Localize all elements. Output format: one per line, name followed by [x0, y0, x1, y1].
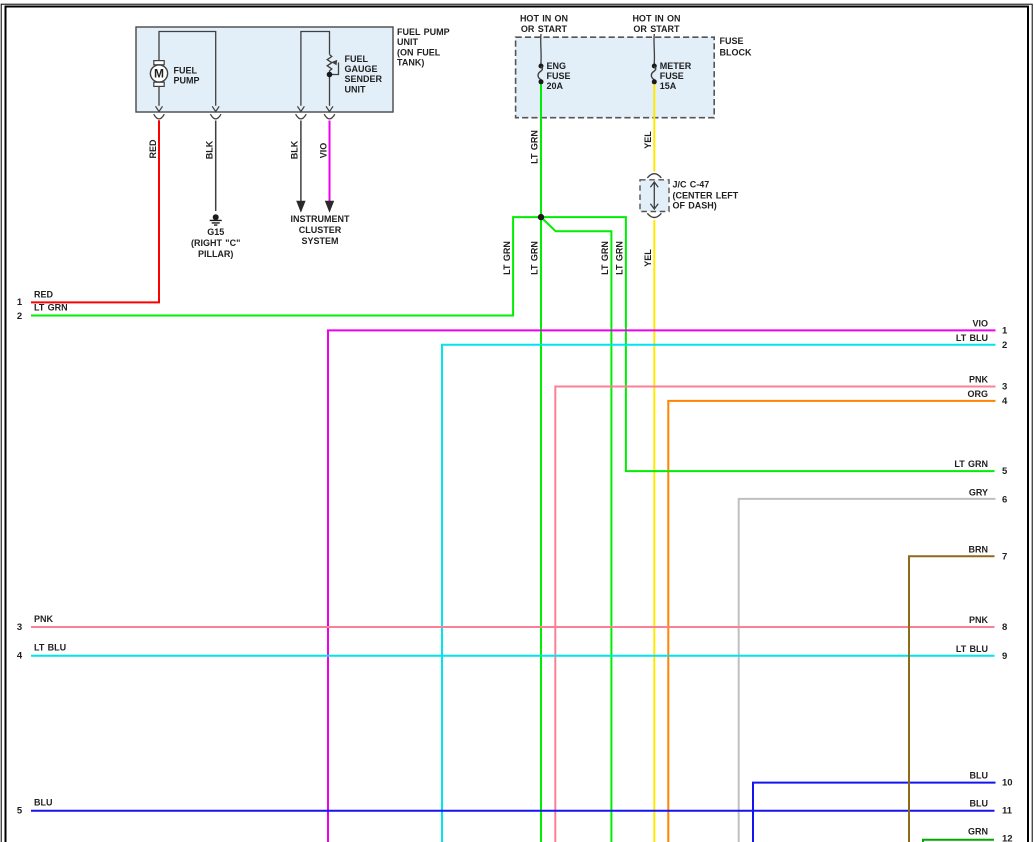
wire VIO from sender to instrument cluster — [329, 121, 331, 202]
svg-text:5: 5 — [17, 806, 23, 817]
wire into ENG fuse — [540, 34, 542, 64]
svg-text:4: 4 — [1002, 396, 1008, 407]
svg-text:CLUSTER: CLUSTER — [299, 225, 342, 235]
svg-text:PNK: PNK — [34, 614, 54, 624]
svg-text:OR START: OR START — [633, 24, 680, 34]
svg-text:11: 11 — [1002, 806, 1013, 817]
svg-text:PNK: PNK — [969, 375, 989, 385]
svg-text:OR START: OR START — [521, 24, 568, 34]
svg-text:FUSE: FUSE — [660, 71, 684, 81]
svg-text:LT BLU: LT BLU — [34, 643, 66, 653]
svg-text:PNK: PNK — [969, 615, 989, 625]
svg-text:VIO: VIO — [318, 143, 328, 159]
svg-text:BLOCK: BLOCK — [720, 48, 752, 58]
svg-text:YEL: YEL — [643, 131, 653, 149]
svg-text:GRY: GRY — [969, 488, 988, 498]
svg-text:5: 5 — [1002, 466, 1008, 477]
svg-text:6: 6 — [1002, 495, 1007, 506]
svg-text:FUEL: FUEL — [345, 54, 369, 64]
junction dot on LT GRN node — [538, 214, 544, 220]
svg-text:FUSE: FUSE — [547, 71, 571, 81]
svg-text:LT BLU: LT BLU — [956, 644, 988, 654]
wire RED from fuel pump to left terminal 1 — [31, 120, 159, 302]
pin arrows at bottom of fuel pump unit box — [156, 106, 334, 111]
wire PNK through line left terminal 3 to right terminal 8 — [31, 626, 995, 628]
svg-text:GRN: GRN — [968, 827, 988, 837]
svg-text:ORG: ORG — [967, 389, 988, 399]
svg-text:UNIT: UNIT — [345, 84, 366, 94]
wire BLK from sender to instrument cluster — [300, 121, 302, 202]
svg-text:LT GRN: LT GRN — [615, 241, 625, 275]
svg-text:10: 10 — [1002, 778, 1013, 789]
svg-text:LT BLU: LT BLU — [956, 333, 988, 343]
svg-text:4: 4 — [17, 651, 23, 662]
svg-text:BLU: BLU — [970, 799, 989, 809]
svg-text:SENDER: SENDER — [345, 74, 383, 84]
sender junction dot — [327, 72, 333, 78]
svg-text:2: 2 — [1002, 340, 1007, 351]
svg-text:9: 9 — [1002, 651, 1007, 662]
wire PNK from right terminal 3 down to page bottom — [555, 387, 995, 842]
svg-text:FUEL: FUEL — [174, 66, 198, 76]
svg-text:8: 8 — [1002, 622, 1007, 633]
ground G15 symbol — [213, 214, 219, 220]
svg-text:3: 3 — [17, 622, 22, 633]
svg-text:1: 1 — [17, 297, 23, 308]
connector arc above J/C C-47 — [647, 174, 661, 178]
svg-text:UNIT: UNIT — [397, 37, 418, 47]
svg-text:BRN: BRN — [969, 544, 989, 554]
svg-text:3: 3 — [1002, 382, 1007, 393]
svg-text:INSTRUMENT: INSTRUMENT — [291, 214, 350, 224]
svg-text:PILLAR): PILLAR) — [198, 249, 234, 259]
svg-text:FUEL PUMP: FUEL PUMP — [397, 27, 450, 37]
svg-text:M: M — [154, 67, 164, 81]
resistor: fuel gauge sender unit zigzag — [327, 55, 332, 75]
wire GRN from right terminal 12 down to page bottom — [923, 840, 994, 842]
wire YEL vertical from METER fuse down to page bottom (segment above J/C) — [653, 84, 655, 172]
svg-text:7: 7 — [1002, 551, 1007, 562]
wire inside box: sender loop — [301, 32, 330, 106]
junction connector J/C C-47 box — [640, 180, 669, 212]
svg-text:HOT IN ON: HOT IN ON — [520, 13, 568, 23]
wire LT GRN diagonal branch from junction down to page bottom — [541, 217, 611, 842]
svg-text:ENG: ENG — [547, 61, 567, 71]
fuse block box — [516, 37, 715, 118]
svg-text:GAUGE: GAUGE — [345, 64, 378, 74]
wire GRY from right terminal 6 down to page bottom — [739, 499, 996, 842]
fuse METER FUSE 15A — [652, 64, 657, 69]
svg-text:20A: 20A — [547, 81, 564, 91]
wire VIO from right terminal 1 down to page bottom — [328, 330, 996, 842]
fuel pump unit box (on fuel tank) — [136, 27, 393, 112]
wire into METER fuse — [653, 34, 655, 64]
svg-text:FUSE: FUSE — [720, 36, 744, 46]
svg-text:(RIGHT "C": (RIGHT "C" — [191, 238, 240, 248]
svg-text:LT GRN: LT GRN — [34, 303, 68, 313]
motor M1 fuel pump symbol — [150, 61, 167, 87]
wire ORG from right terminal 4 down to page bottom — [668, 401, 995, 842]
wire LT GRN right branch from junction to right terminal 5 — [541, 217, 995, 471]
svg-text:LT GRN: LT GRN — [530, 241, 540, 275]
svg-text:BLU: BLU — [34, 798, 53, 808]
svg-text:BLK: BLK — [205, 140, 215, 159]
wire inside box: motor to box bottom — [158, 86, 160, 105]
wire BLU from right terminal 10 down to page bottom — [753, 783, 996, 842]
svg-text:(ON FUEL: (ON FUEL — [397, 47, 441, 57]
wire BLK from fuel pump unit to ground G15 — [215, 121, 217, 212]
svg-text:2: 2 — [17, 311, 22, 322]
connector arc below J/C C-47 — [647, 213, 661, 217]
wire YEL vertical (segment below J/C to bottom) — [653, 220, 655, 842]
svg-text:LT GRN: LT GRN — [530, 130, 540, 164]
svg-text:G15: G15 — [207, 227, 224, 237]
wire inside box: fuel pump motor loop — [159, 32, 216, 106]
svg-text:LT GRN: LT GRN — [502, 241, 512, 275]
svg-text:RED: RED — [148, 139, 158, 159]
connector arcs below fuel pump unit box — [154, 114, 335, 119]
wire BLU through line left terminal 5 to right terminal 11 — [31, 810, 995, 812]
svg-text:12: 12 — [1002, 833, 1013, 842]
svg-text:BLU: BLU — [970, 771, 989, 781]
wire LT GRN left branch from junction to left terminal 2 — [31, 217, 541, 315]
svg-text:METER: METER — [660, 61, 692, 71]
svg-text:YEL: YEL — [643, 249, 653, 267]
svg-text:TANK): TANK) — [397, 58, 424, 68]
svg-text:RED: RED — [34, 289, 54, 299]
wire inside box: sender dot to box bottom — [329, 75, 331, 106]
sender wiper arm with arrowhead — [330, 63, 339, 75]
svg-text:(CENTER LEFT: (CENTER LEFT — [673, 190, 739, 200]
wire LT BLU from right terminal 2 down to page bottom — [442, 345, 996, 842]
double arrow inside J/C C-47 — [650, 182, 658, 209]
fuse ENG FUSE 20A — [539, 64, 544, 69]
svg-text:LT GRN: LT GRN — [954, 459, 988, 469]
svg-text:LT GRN: LT GRN — [600, 241, 610, 275]
svg-text:SYSTEM: SYSTEM — [301, 236, 338, 246]
svg-text:J/C C-47: J/C C-47 — [673, 179, 710, 189]
svg-text:15A: 15A — [660, 81, 677, 91]
wire LT GRN central vertical from ENG fuse to page bottom — [540, 84, 542, 842]
svg-text:PUMP: PUMP — [174, 76, 200, 86]
svg-text:HOT IN ON: HOT IN ON — [632, 13, 680, 23]
wire BRN from right terminal 7 down to page bottom — [909, 556, 995, 842]
svg-text:VIO: VIO — [972, 318, 988, 328]
svg-text:1: 1 — [1002, 325, 1008, 336]
svg-text:BLK: BLK — [290, 140, 300, 159]
wire LT BLU through line left terminal 4 to right terminal 9 — [31, 655, 995, 657]
svg-text:OF DASH): OF DASH) — [673, 200, 717, 210]
